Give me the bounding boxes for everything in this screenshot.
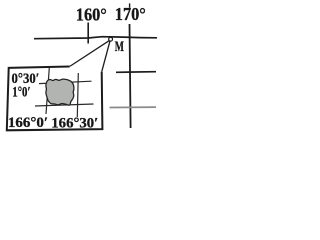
inset box outline (open at top-right corner) (7, 67, 103, 131)
inset grid horizontal line 1°0′ (35, 104, 94, 106)
node 170 meridian line (130, 24, 131, 128)
inset grid vertical line 166°30′ (77, 73, 78, 117)
node 160 meridian segment (87, 23, 89, 44)
inset grid vertical line 166°0′ (46, 68, 49, 115)
wire equator parallel line (34, 37, 157, 39)
wire leader line B from inset box to point M (102, 41, 110, 72)
point M circle (109, 37, 113, 41)
island (gray landmass in inset) (46, 79, 74, 105)
svg-text:166°30′: 166°30′ (51, 115, 98, 132)
node 170 meridian tick above label (129, 3, 131, 7)
svg-text:166°0′: 166°0′ (8, 114, 48, 131)
svg-text:1°0′: 1°0′ (12, 85, 30, 101)
wire leader line A from inset box to point M (70, 40, 110, 66)
svg-text:170°: 170° (115, 4, 146, 24)
svg-text:160°: 160° (76, 5, 107, 25)
inset grid horizontal line 0°30′ (39, 81, 92, 83)
wire parallel right mid (116, 71, 156, 74)
svg-text:M: M (115, 39, 124, 55)
wire gray parallel lower right (110, 106, 157, 108)
